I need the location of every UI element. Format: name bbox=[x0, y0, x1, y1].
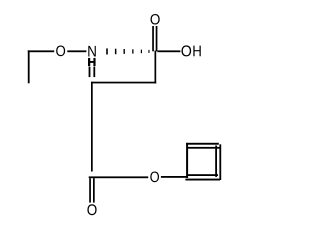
bond C=O2 double bond left line bbox=[152, 26, 154, 51]
phenyl ring top outer edge bbox=[186, 143, 219, 145]
hashed stereo bond dash 3 bbox=[124, 49, 125, 54]
wire: ester carbonyl horizontal bond C-O4 bbox=[89, 176, 149, 178]
bond N=C double bond right line bbox=[93, 67, 95, 77]
wire: chain vertical bond carboxylC-CH2 right bbox=[155, 51, 157, 84]
atom O1 (ether oxygen) label bbox=[56, 46, 65, 57]
phenyl ring top inner double-bond line bbox=[187, 147, 220, 149]
bond N=C double bond left line bbox=[89, 67, 91, 77]
phenyl ring left edge bbox=[186, 143, 188, 178]
phenyl ring inner corner junction bbox=[215, 146, 217, 148]
atom N1 (nitrogen) label bbox=[88, 46, 96, 57]
atom O3-H (hydroxyl OH) label bbox=[181, 45, 191, 56]
atom O2 (carboxyl carbonyl oxygen) label bbox=[151, 14, 160, 25]
hashed stereo bond dash 5 bbox=[141, 50, 142, 54]
wire: ethyl CH3-CH2 vertical bond bbox=[28, 50, 30, 83]
wire: chain horizontal bond CH2-C bbox=[91, 82, 156, 84]
wire: O1-N bond bbox=[67, 50, 86, 52]
phenyl ring right inner double-bond line bbox=[215, 148, 217, 177]
phenyl ring bottom inner double-bond line bbox=[188, 174, 219, 176]
atom O4 (ester oxygen) label bbox=[150, 172, 159, 183]
wire: ethyl CH2-O horizontal bond bbox=[28, 50, 54, 52]
hashed stereo bond dash 4 bbox=[132, 49, 133, 53]
atom H1 (N-H hydrogen) label bbox=[88, 58, 95, 66]
atom O5 (ester carbonyl oxygen) label bbox=[87, 204, 96, 215]
bond ester C=O5 double bond right line bbox=[93, 178, 95, 202]
hashed stereo bond dash 2 bbox=[115, 49, 117, 55]
atom O3-H hydroxyl H letter bbox=[193, 46, 200, 57]
wire: O4-phenyl bond bbox=[161, 176, 188, 178]
bond C=O2 double bond right line bbox=[156, 26, 158, 51]
phenyl ring right outer edge bbox=[219, 144, 221, 180]
bond ester C=O5 double bond left line bbox=[89, 178, 91, 202]
wire: carboxyl C-OH bond bbox=[157, 50, 180, 52]
hashed stereo bond dash 6 bbox=[148, 50, 149, 53]
hashed stereo bond dash 1 bbox=[106, 48, 108, 54]
phenyl ring bottom outer edge bbox=[185, 179, 220, 181]
wire: chain long vertical bond C-C left bbox=[91, 82, 93, 172]
